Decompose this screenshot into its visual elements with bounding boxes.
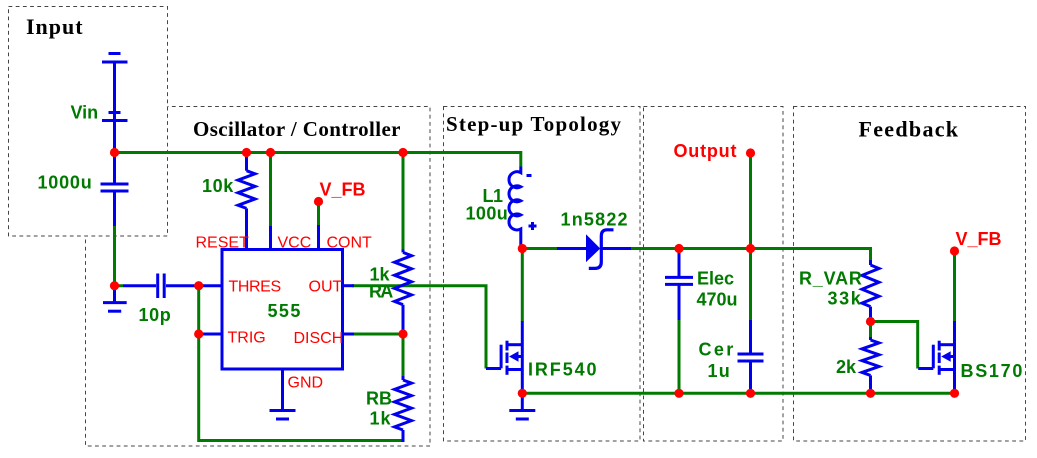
svg-text:OUT: OUT (309, 279, 343, 296)
svg-text:2k: 2k (836, 357, 857, 377)
pin GND stub + ground (555) (270, 369, 296, 419)
inductor L1 (509, 167, 537, 249)
wire: 2k top link (869, 322, 872, 338)
wire: diode to R_VAR rail (631, 249, 871, 261)
wire: Output label drop (749, 153, 752, 249)
svg-text:1k: 1k (370, 409, 392, 429)
pin DISCH stub (343, 333, 355, 336)
junction: Elec top (674, 244, 683, 253)
diode 1n5822 (557, 230, 631, 269)
junction: IRF540 source node (518, 389, 527, 398)
net label Output (674, 141, 738, 161)
pin label DISCH (294, 330, 344, 347)
node V_FB (CONT) (314, 197, 323, 206)
wire: L1 to diode (521, 247, 558, 250)
title Oscillator / Controller (193, 117, 401, 141)
pin label GND (288, 375, 324, 392)
svg-text:V_FB: V_FB (956, 229, 1002, 249)
svg-text:1n5822: 1n5822 (561, 210, 629, 230)
wire: RA top drop (402, 153, 405, 250)
svg-text:1u: 1u (708, 361, 731, 381)
label 1k (RA) (370, 265, 391, 285)
svg-text:10p: 10p (139, 305, 172, 325)
label Elec (697, 269, 734, 289)
wire: DISCH to RB node (352, 333, 403, 336)
net label V_FB (feedback) (956, 229, 1002, 249)
svg-text:RA: RA (369, 282, 393, 302)
label RB (366, 389, 392, 409)
resistor R_VAR 33k (862, 260, 879, 322)
op-amp U1: 555 timer box (222, 250, 343, 370)
net label V_FB (CONT) (320, 180, 366, 200)
section box: Input (9, 7, 168, 237)
svg-text:TRIG: TRIG (228, 330, 266, 347)
section box: Feedback (794, 107, 1026, 442)
transistor Q1 IRF540 (486, 321, 522, 393)
ground (IRF540 source) (509, 393, 535, 419)
pin label THRES (229, 279, 281, 296)
resistor 10k (238, 153, 255, 250)
label Vin (71, 103, 99, 123)
wire: OUT to gate (352, 286, 486, 369)
svg-text:DISCH: DISCH (294, 330, 344, 347)
svg-text:VCC: VCC (278, 235, 312, 252)
svg-text:BS170: BS170 (961, 361, 1025, 381)
resistor RB 1k (395, 376, 412, 441)
svg-text:R_VAR: R_VAR (799, 269, 863, 289)
wire: bottom rail (522, 392, 954, 395)
capacitor 10p (123, 274, 199, 299)
junction: DISCH/RA/RB node (398, 329, 407, 338)
svg-text:THRES: THRES (229, 279, 281, 296)
svg-text:Vin: Vin (71, 103, 99, 123)
label IRF540 (528, 360, 598, 380)
junction: R_VAR wiper node (866, 317, 875, 326)
svg-text:100u: 100u (466, 204, 509, 224)
wire: input cap to ground node (115, 226, 124, 286)
pin CONT stub (317, 225, 320, 250)
title Feedback (859, 117, 960, 142)
junction: input ground node (110, 281, 119, 290)
pin VCC stub (269, 226, 272, 250)
label 555 (268, 301, 302, 321)
label 33k (828, 289, 863, 309)
wire: THRES-TRIG link (197, 286, 200, 334)
svg-text:Feedback: Feedback (859, 117, 960, 142)
node V_FB (BS170) (950, 246, 959, 255)
battery Vin (102, 54, 128, 153)
junction: THRES node (194, 281, 203, 290)
label 2k (836, 357, 857, 377)
ground (input) (103, 286, 127, 312)
wire: TRIG stub (199, 333, 222, 336)
section box: Oscillator / Controller (86, 107, 431, 447)
svg-text:GND: GND (288, 375, 324, 392)
svg-text:33k: 33k (828, 289, 863, 309)
wire: V_FB drop to CONT (317, 202, 320, 225)
label L1 (483, 186, 503, 206)
svg-text:555: 555 (268, 301, 302, 321)
wire: IRF540 drain link (521, 249, 524, 321)
label 100u (466, 204, 509, 224)
svg-text:Cer: Cer (699, 340, 736, 360)
svg-text:470u: 470u (697, 290, 738, 310)
junction: BS170 source node (950, 389, 959, 398)
svg-text:Elec: Elec (697, 269, 734, 289)
transistor Q2 BS170 (918, 321, 954, 393)
svg-text:RESET: RESET (196, 235, 250, 252)
title Input (26, 14, 84, 39)
junction: L1-diode node (518, 244, 527, 253)
wire: top rail Vin to L1 (115, 153, 521, 167)
label 470u (697, 290, 738, 310)
wire: Cer top link (749, 249, 752, 320)
wire: VCC drop (269, 153, 272, 226)
label Cer (699, 340, 736, 360)
label 1n5822 (561, 210, 629, 230)
junction: RA top (398, 148, 407, 157)
title Step-up Topology (446, 112, 622, 136)
svg-text:10k: 10k (202, 176, 234, 196)
node Output (746, 148, 755, 157)
label 1u (708, 361, 731, 381)
svg-text:RB: RB (366, 389, 392, 409)
label BS170 (961, 361, 1025, 381)
label RA (369, 282, 393, 302)
svg-text:1000u: 1000u (38, 173, 93, 193)
junction: 2k bottom (866, 389, 875, 398)
label 10p (139, 305, 172, 325)
svg-text:Step-up Topology: Step-up Topology (446, 112, 622, 136)
wire: RB top link (402, 334, 405, 376)
resistor 2k (862, 337, 879, 393)
wire: THRES stub (199, 284, 222, 287)
label 1000u (38, 173, 93, 193)
svg-text:V_FB: V_FB (320, 180, 366, 200)
junction: 10k top (242, 148, 251, 157)
svg-text:Output: Output (674, 141, 738, 161)
pin label OUT (309, 279, 343, 296)
svg-text:Oscillator / Controller: Oscillator / Controller (193, 117, 401, 141)
resistor RA 1k (395, 250, 412, 335)
junction: Cer top (746, 244, 755, 253)
label R_VAR (799, 269, 863, 289)
pin label TRIG (228, 330, 266, 347)
wire: TRIG down and bottom run (199, 334, 402, 441)
wire: wiper to BS170 gate (871, 322, 918, 369)
svg-text:Input: Input (26, 14, 84, 39)
junction: Elec bottom (674, 389, 683, 398)
wire: V_FB drop to BS170 drain (953, 251, 956, 321)
label 1k (RB) (370, 409, 392, 429)
svg-text:CONT: CONT (327, 235, 373, 252)
junction: VCC rail (266, 148, 275, 157)
label 10k (202, 176, 234, 196)
svg-text:IRF540: IRF540 (528, 360, 598, 380)
wire: Elec bottom link (678, 319, 681, 393)
capacitor 1000u (101, 153, 129, 227)
capacitor Cer 1u (738, 320, 764, 393)
section box: Output (644, 107, 784, 442)
capacitor Elec 470u (665, 250, 693, 320)
pin OUT stub (343, 284, 355, 287)
junction: Vin node (110, 148, 119, 157)
pin label VCC (278, 235, 312, 252)
section box: Step-up Topology (444, 107, 641, 442)
junction: TRIG node (194, 329, 203, 338)
junction: Cer bottom (746, 389, 755, 398)
pin label RESET (196, 235, 250, 252)
pin label CONT (327, 235, 373, 252)
